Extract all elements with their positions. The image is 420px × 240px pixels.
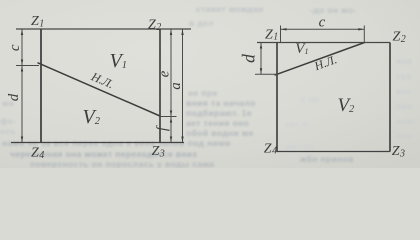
svg-text:или: или [396, 116, 413, 126]
svg-text:обой водни ме: обой водни ме [186, 128, 254, 138]
svg-text:e: e [156, 70, 172, 77]
svg-text:ось: ось [0, 126, 16, 136]
left rect left edge [40, 29, 42, 143]
svg-text:поверхность он порослась у: поверхность он порослась у воды сама [30, 159, 214, 168]
svg-text:фе-: фе- [0, 116, 16, 126]
zero line (diagonal) left diagram [38, 63, 161, 116]
svg-text:не пре: не пре [188, 88, 218, 98]
right mid tick at diagonal end [160, 116, 177, 118]
svg-text:d: d [239, 54, 259, 63]
arrows on e/f dim line [170, 30, 172, 36]
svg-text:станет мождан: станет мождан [196, 4, 264, 14]
c extension line left [280, 26, 282, 43]
right rect left edge [276, 43, 278, 152]
arrows on d dim line [260, 43, 262, 49]
zero line (diagonal) right diagram [275, 43, 365, 76]
svg-text:a: a [168, 82, 184, 90]
d bottom tick [255, 73, 278, 75]
svg-text:в дел: в дел [189, 18, 214, 28]
svg-text:-до он мо-: -до он мо- [310, 5, 357, 15]
svg-text:жбн принов: жбн принов [299, 154, 354, 164]
c extension line right [363, 26, 365, 43]
left rect top edge [16, 28, 191, 30]
svg-text:ина: ина [396, 56, 412, 66]
svg-text:дит ся: дит ся [285, 141, 314, 151]
mid tick at diagonal start [16, 65, 39, 67]
svg-text:нти: нти [396, 131, 412, 141]
bleed-through text from reverse page [0, 4, 413, 169]
svg-text:сул: сул [396, 71, 412, 81]
d dimension line [260, 43, 262, 75]
svg-text:c: c [319, 14, 326, 30]
arrows on a dim line [181, 30, 183, 36]
a dimension line [182, 29, 184, 143]
left dimension line c/d [21, 29, 23, 143]
svg-text:вния та начало: вния та начало [186, 98, 256, 108]
svg-text:н пр: н пр [300, 94, 319, 104]
svg-text:про: про [396, 101, 413, 111]
left rect bottom edge [11, 142, 184, 144]
svg-text:c: c [7, 44, 23, 51]
right rect bottom edge [277, 151, 390, 153]
left rect right edge [159, 29, 161, 143]
svg-text:ног: ног [396, 86, 411, 96]
right rect top edge (with left tick extension) [257, 42, 390, 44]
c dimension line (top) [281, 28, 365, 30]
svg-text:d: d [6, 93, 22, 101]
arrows on c dim line [281, 28, 287, 30]
right rect right edge [389, 43, 391, 152]
svg-text:подбирают. 1е: подбирают. 1е [186, 108, 252, 118]
arrows on left dim line [21, 30, 23, 36]
paper background [0, 0, 420, 168]
svg-text:ает тения оно: ает тения оно [186, 118, 249, 128]
e dimension line [170, 29, 172, 143]
svg-text:ает о: ает о [285, 119, 308, 129]
